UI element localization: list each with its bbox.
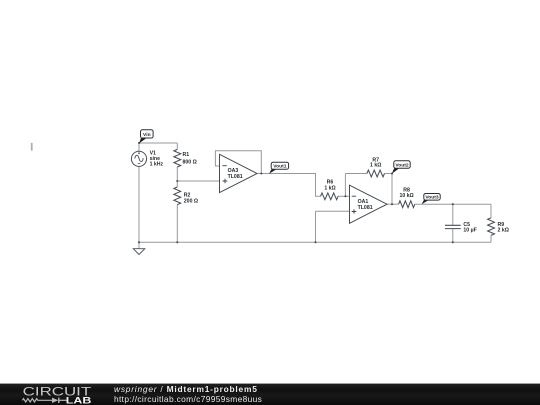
svg-text:10 µF: 10 µF	[463, 227, 476, 233]
svg-text:800 Ω: 800 Ω	[183, 159, 197, 165]
svg-text:LAB: LAB	[66, 395, 92, 405]
svg-text:OA1: OA1	[358, 199, 369, 205]
svg-text:TL081: TL081	[358, 205, 373, 211]
svg-text:2 kΩ: 2 kΩ	[498, 227, 509, 233]
svg-text:Vout2: Vout2	[395, 162, 409, 168]
svg-text:1 kΩ: 1 kΩ	[324, 185, 335, 191]
svg-text:TL081: TL081	[228, 174, 243, 180]
svg-text:Vout1: Vout1	[273, 164, 287, 170]
svg-text:1 kHz: 1 kHz	[150, 161, 164, 167]
svg-text:1 kΩ: 1 kΩ	[370, 162, 381, 168]
svg-text:R1: R1	[183, 152, 190, 158]
svg-text:OA3: OA3	[228, 168, 239, 174]
svg-text:200 Ω: 200 Ω	[184, 198, 198, 204]
svg-text:Vin: Vin	[143, 132, 151, 138]
svg-text:Vout3: Vout3	[425, 195, 439, 201]
svg-text:10 kΩ: 10 kΩ	[399, 193, 413, 199]
